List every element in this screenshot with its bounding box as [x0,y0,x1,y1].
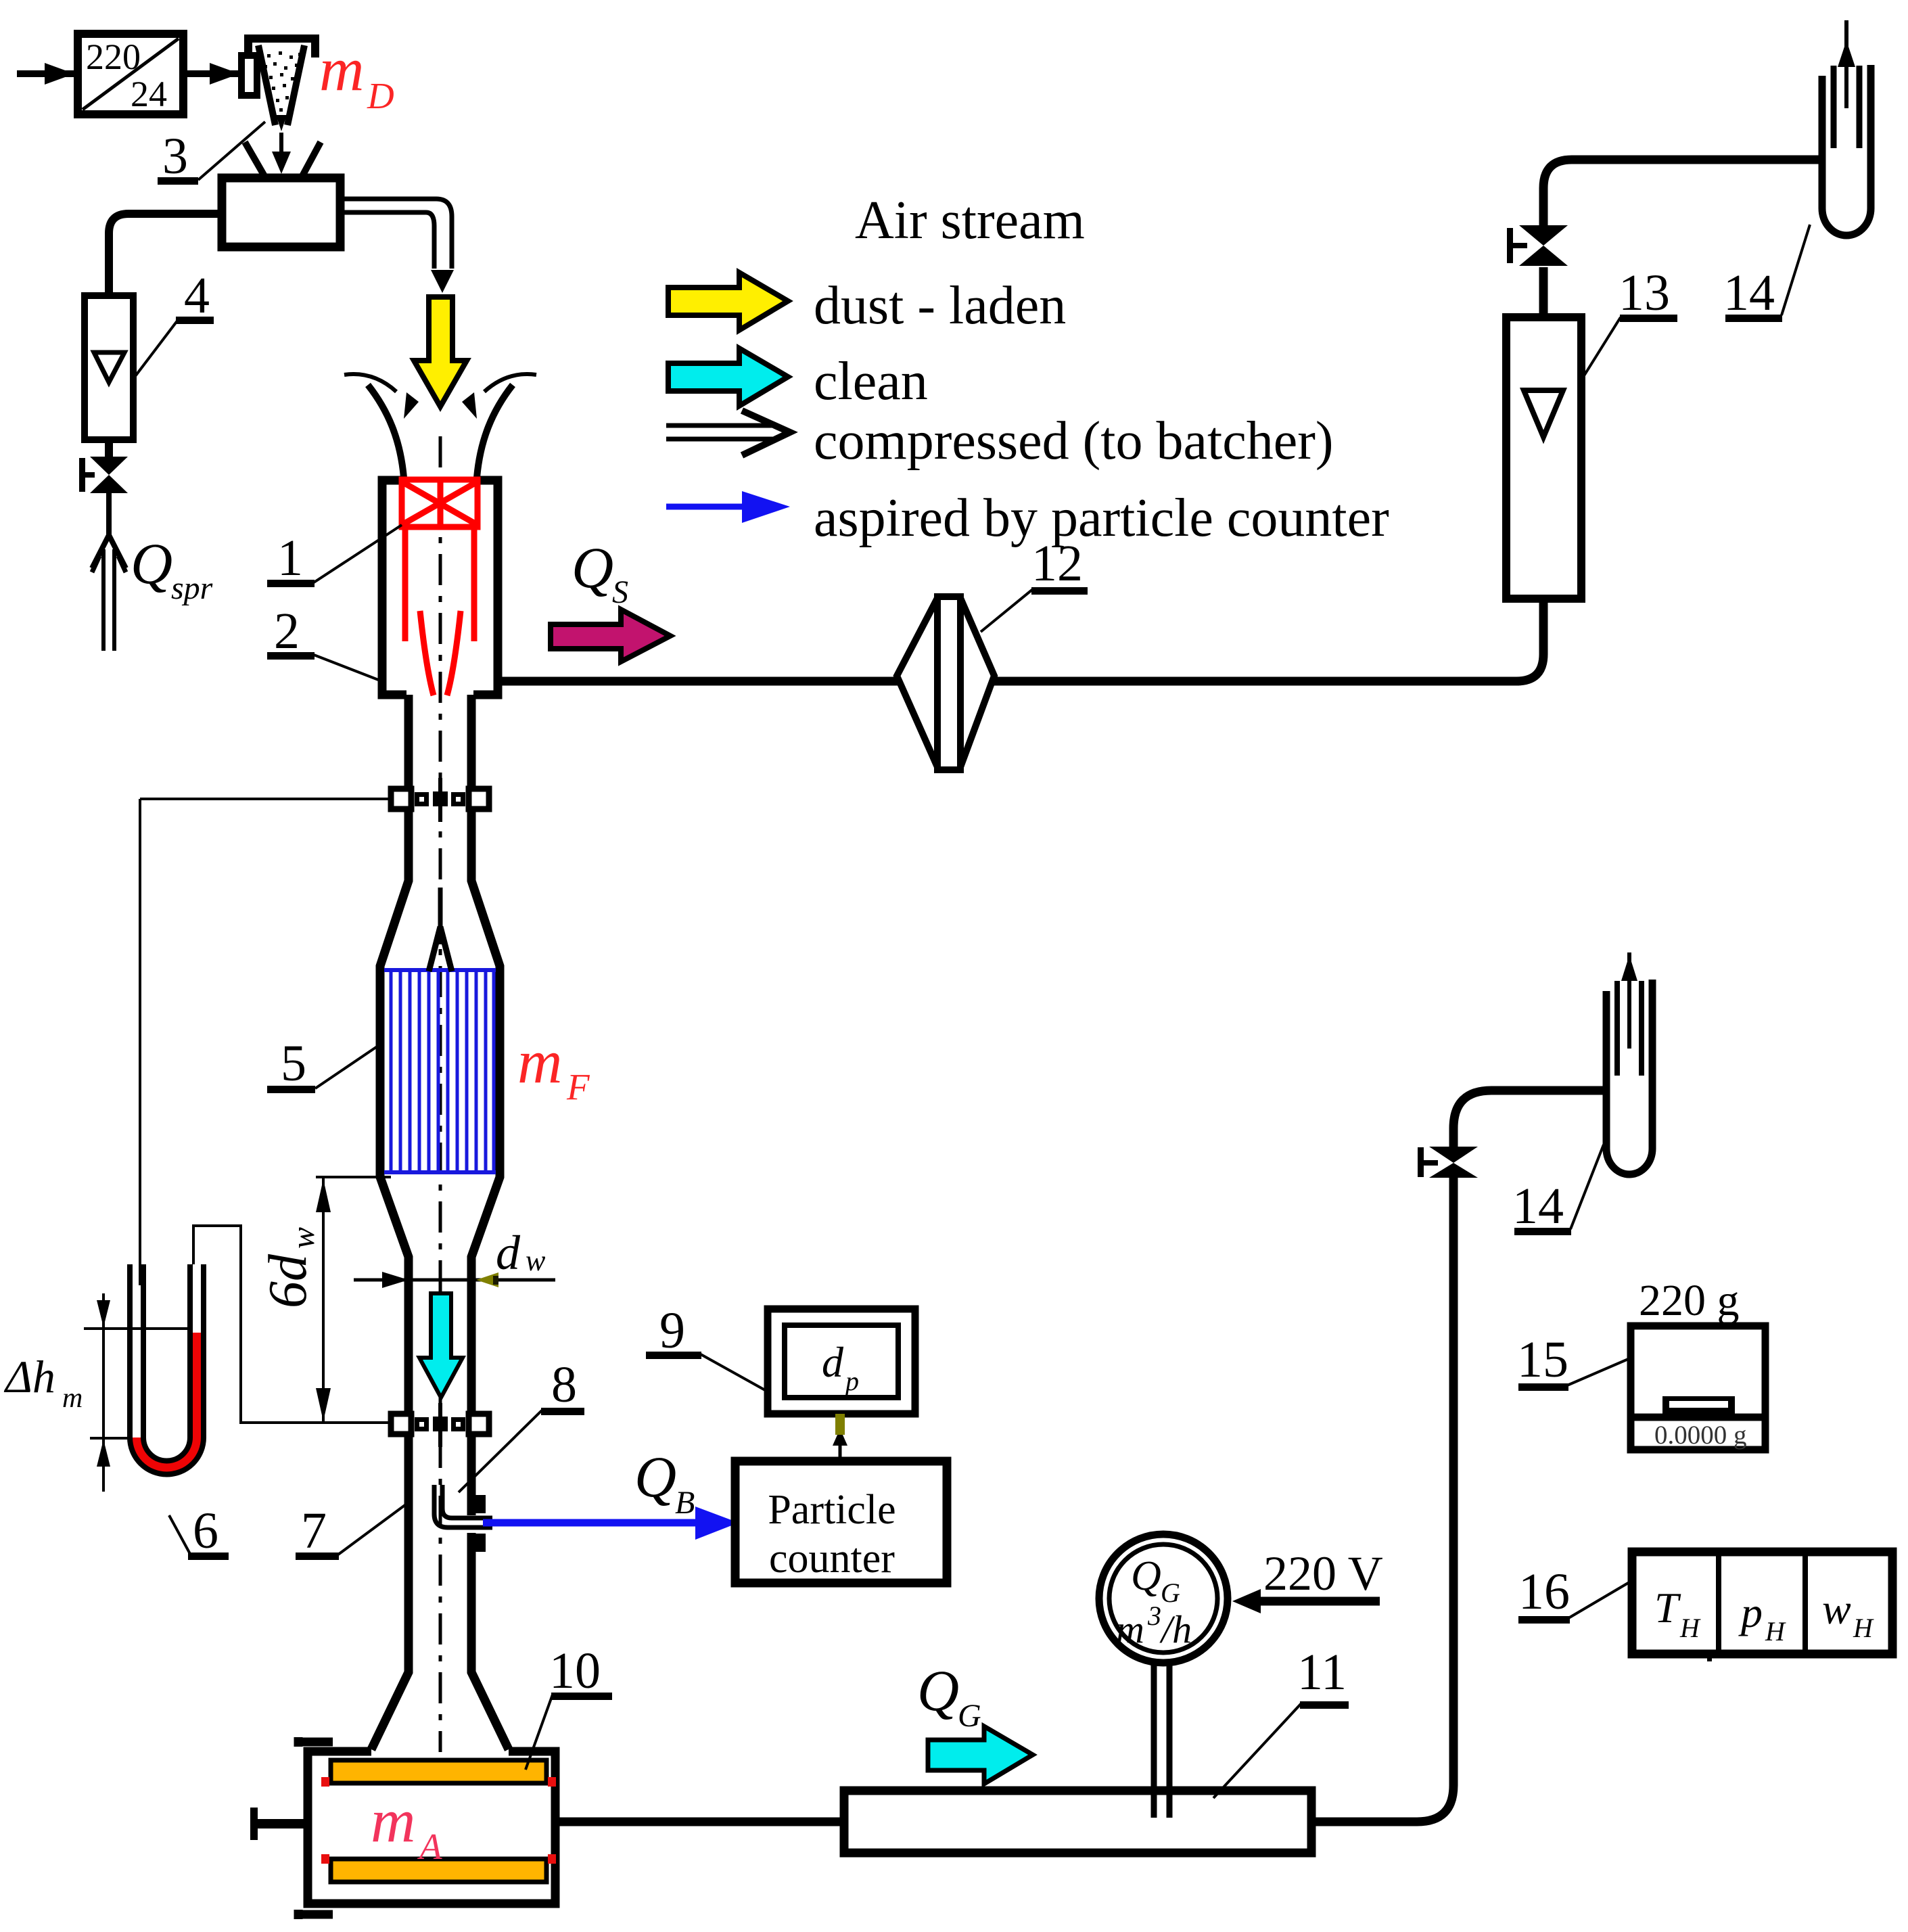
label 5 [267,1035,380,1093]
valve V3 [1418,1147,1478,1178]
svg-text:d: d [822,1338,844,1386]
label 11 [1213,1644,1349,1798]
svg-text:d: d [496,1226,521,1280]
svg-text:Air stream: Air stream [855,191,1085,250]
svg-text:spr: spr [171,570,213,606]
svg-text:Δh: Δh [3,1351,55,1402]
wire valve V2 to flask 14 [1543,160,1822,225]
dust hopper 3 [241,39,315,131]
svg-text:F: F [566,1066,590,1107]
svg-text:Particle: Particle [768,1487,895,1533]
svg-text:15: 15 [1517,1331,1568,1388]
svg-text:6d: 6d [258,1253,318,1308]
dot below box 16 [1707,1657,1712,1661]
svg-text:Q: Q [572,535,613,600]
legend dust-laden arrow [668,273,788,330]
cartridge seals (red) [321,1777,556,1864]
valve V1 (spray air) [79,457,128,493]
svg-text:aspired by particle counter: aspired by particle counter [814,488,1389,548]
wire sampling duct to blower 12 [498,677,1519,686]
label 12 [981,535,1088,632]
svg-text:D: D [367,75,394,116]
wire rotameter 4 to valve [105,440,113,459]
svg-text:5: 5 [281,1035,306,1092]
svg-text:Q: Q [917,1658,959,1723]
svg-text:A: A [417,1826,442,1867]
label Delta h m [3,1351,83,1414]
exhaust flask 14 (bottom) [1606,952,1652,1174]
svg-text:m: m [62,1383,83,1414]
wire counter to display [833,1414,847,1461]
label mF [517,1027,590,1107]
label 2 [267,603,380,681]
filter inlet cone arrow [429,888,452,971]
wire valve V3 to flask 14 (bottom) [1453,1090,1606,1147]
svg-text:Q: Q [1131,1553,1161,1599]
dimension dw [354,1226,555,1288]
svg-text:3: 3 [162,128,188,185]
venturi housing body 2 [382,480,498,695]
svg-text:m: m [319,34,364,103]
wire rotameter 13 to valve V2 [1539,267,1548,317]
label 3 [158,122,265,185]
legend clean arrow [668,348,788,406]
valve V2 [1507,225,1568,266]
svg-text:Q: Q [131,531,172,596]
label 13 [1583,264,1677,377]
housing clamp [250,1808,308,1840]
wire 220 V supply to gauge [1232,1546,1383,1613]
svg-text:10: 10 [549,1642,601,1699]
svg-text:16: 16 [1518,1563,1570,1620]
sampling probe 8 [434,1485,492,1552]
svg-text:Q: Q [634,1444,676,1509]
legend compressed arrow [666,411,790,455]
display dp 9 [768,1309,915,1414]
svg-text:4: 4 [184,267,210,324]
wire gas meter to valve V3 [1311,1178,1453,1822]
dimension 6dw [258,1177,391,1423]
label QG [917,1658,981,1734]
wire batcher to rotameter 4 [109,214,222,296]
label 8 [459,1356,584,1492]
svg-text:14: 14 [1723,264,1775,321]
filter 5 hatch (blue) [384,970,496,1172]
svg-text:w: w [1822,1585,1851,1633]
wire compressed air pipe to batcher [340,199,452,269]
U-tube manometer 6 [130,1264,204,1474]
absolute filter cartridge (orange) [331,1760,546,1882]
svg-text:/h: /h [1159,1607,1192,1651]
svg-text:2: 2 [274,603,300,660]
sampled flow arrow QS (magenta) [551,609,670,662]
svg-text:7: 7 [301,1502,327,1559]
label 10 [526,1642,612,1770]
aspired air line QB (blue) [483,1506,739,1540]
legend aspired arrow [666,491,790,523]
manometer level dimension [84,1293,190,1492]
column centerline [439,436,442,1752]
lower pressure tap [391,1403,489,1447]
spray air inlet arrow Qspr [92,493,126,651]
svg-text:p: p [1738,1588,1763,1636]
upper pressure tap [140,778,489,822]
svg-text:S: S [612,574,628,610]
label QS [572,535,628,610]
svg-text:dust - laden: dust - laden [814,276,1066,336]
label 9 [646,1302,766,1391]
wire lower tap to manometer right limb [193,1226,391,1423]
absolute filter housing 10 [298,1737,555,1919]
svg-text:1: 1 [277,530,303,586]
label Qspr [131,531,213,606]
nozzle element 2 (red) [405,527,474,695]
svg-text:9: 9 [659,1302,685,1359]
dust-laden air arrow (yellow) [414,297,467,407]
label 7 [296,1502,406,1560]
label 4 [135,267,214,376]
label 15 [1517,1331,1631,1391]
power supply 220/24 [78,34,183,114]
label QB [634,1444,695,1521]
svg-text:24: 24 [131,74,167,114]
particle counter [735,1461,947,1583]
svg-text:11: 11 [1297,1644,1347,1701]
wire upper tap to manometer left limb [139,799,141,1285]
svg-text:w: w [526,1244,546,1277]
svg-text:clean: clean [814,352,928,411]
svg-text:3: 3 [1147,1601,1161,1631]
svg-text:B: B [675,1485,695,1521]
svg-text:220 g: 220 g [1639,1276,1740,1325]
svg-text:8: 8 [551,1356,577,1413]
svg-text:6: 6 [193,1502,218,1559]
gas meter 11 [844,1791,1311,1853]
label 1 [267,525,402,587]
svg-text:T: T [1654,1584,1681,1632]
rotameter 13 [1506,317,1581,599]
column tube walls [371,695,509,1749]
sprayer element 1 (red) [402,480,478,528]
svg-text:m: m [1116,1607,1144,1651]
exhaust flask 14 (top) [1822,20,1871,235]
svg-text:H: H [1679,1613,1701,1643]
gauge dial QG [1099,1534,1228,1663]
label 14 (top) [1723,225,1810,322]
svg-text:H: H [1853,1613,1874,1643]
svg-text:w: w [285,1227,321,1249]
svg-text:220: 220 [86,37,141,77]
rotameter 4 [85,296,133,440]
label mA [371,1786,442,1867]
label mD [319,34,394,116]
label 14 (bottom) [1512,1145,1604,1235]
blower 12 [897,597,994,770]
svg-text:m: m [371,1786,415,1855]
compressed air arrowhead [431,270,454,293]
svg-text:0.0000 g: 0.0000 g [1654,1421,1747,1450]
wire mains input [17,63,76,85]
ambient conditions box 16 [1632,1552,1892,1654]
svg-text:p: p [843,1366,859,1396]
svg-text:m: m [517,1027,562,1096]
wire housing to gas meter 11 [555,1818,844,1826]
svg-text:G: G [1161,1578,1180,1608]
svg-text:counter: counter [769,1536,895,1582]
balance 15 [1631,1276,1765,1450]
svg-text:compressed (to batcher): compressed (to batcher) [814,411,1334,471]
wire blower to rotameter 13 [1516,599,1543,681]
svg-text:14: 14 [1512,1178,1564,1235]
svg-text:G: G [958,1698,981,1734]
metered clean air arrow QG (cyan) [928,1726,1033,1784]
batcher body [222,133,340,247]
clean air arrow (cyan, down) [419,1293,463,1398]
venturi inlet bell [344,374,536,478]
svg-text:220 V: 220 V [1263,1546,1383,1601]
svg-text:13: 13 [1619,264,1670,321]
label 16 [1518,1563,1633,1624]
label 6 [169,1502,229,1560]
wire supply to batcher drive [183,63,241,85]
svg-text:H: H [1765,1616,1786,1647]
bell inlet arrows [404,392,419,419]
gauge stem [1154,1663,1169,1818]
